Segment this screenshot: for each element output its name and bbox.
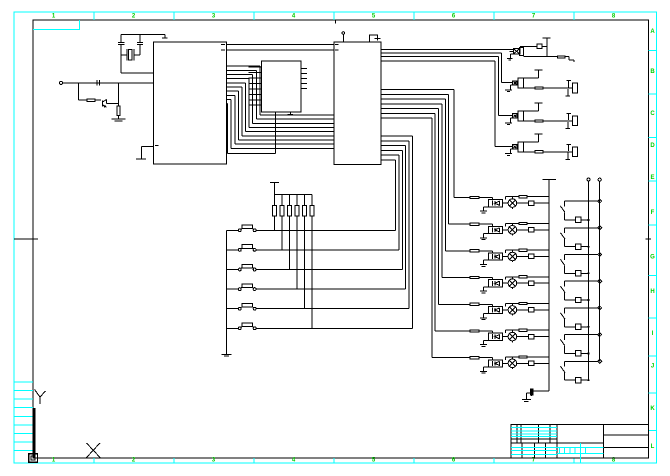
svg-text:G: G <box>650 254 655 260</box>
svg-text:A: A <box>650 29 655 35</box>
svg-text:F: F <box>651 210 655 216</box>
svg-text:D: D <box>650 143 655 149</box>
svg-text:H: H <box>650 289 654 295</box>
svg-text:B: B <box>650 69 655 75</box>
svg-text:K: K <box>650 406 655 412</box>
svg-text:L: L <box>651 444 655 450</box>
svg-text:E: E <box>650 175 654 181</box>
svg-text:J: J <box>651 363 654 369</box>
svg-text:C: C <box>650 111 655 117</box>
